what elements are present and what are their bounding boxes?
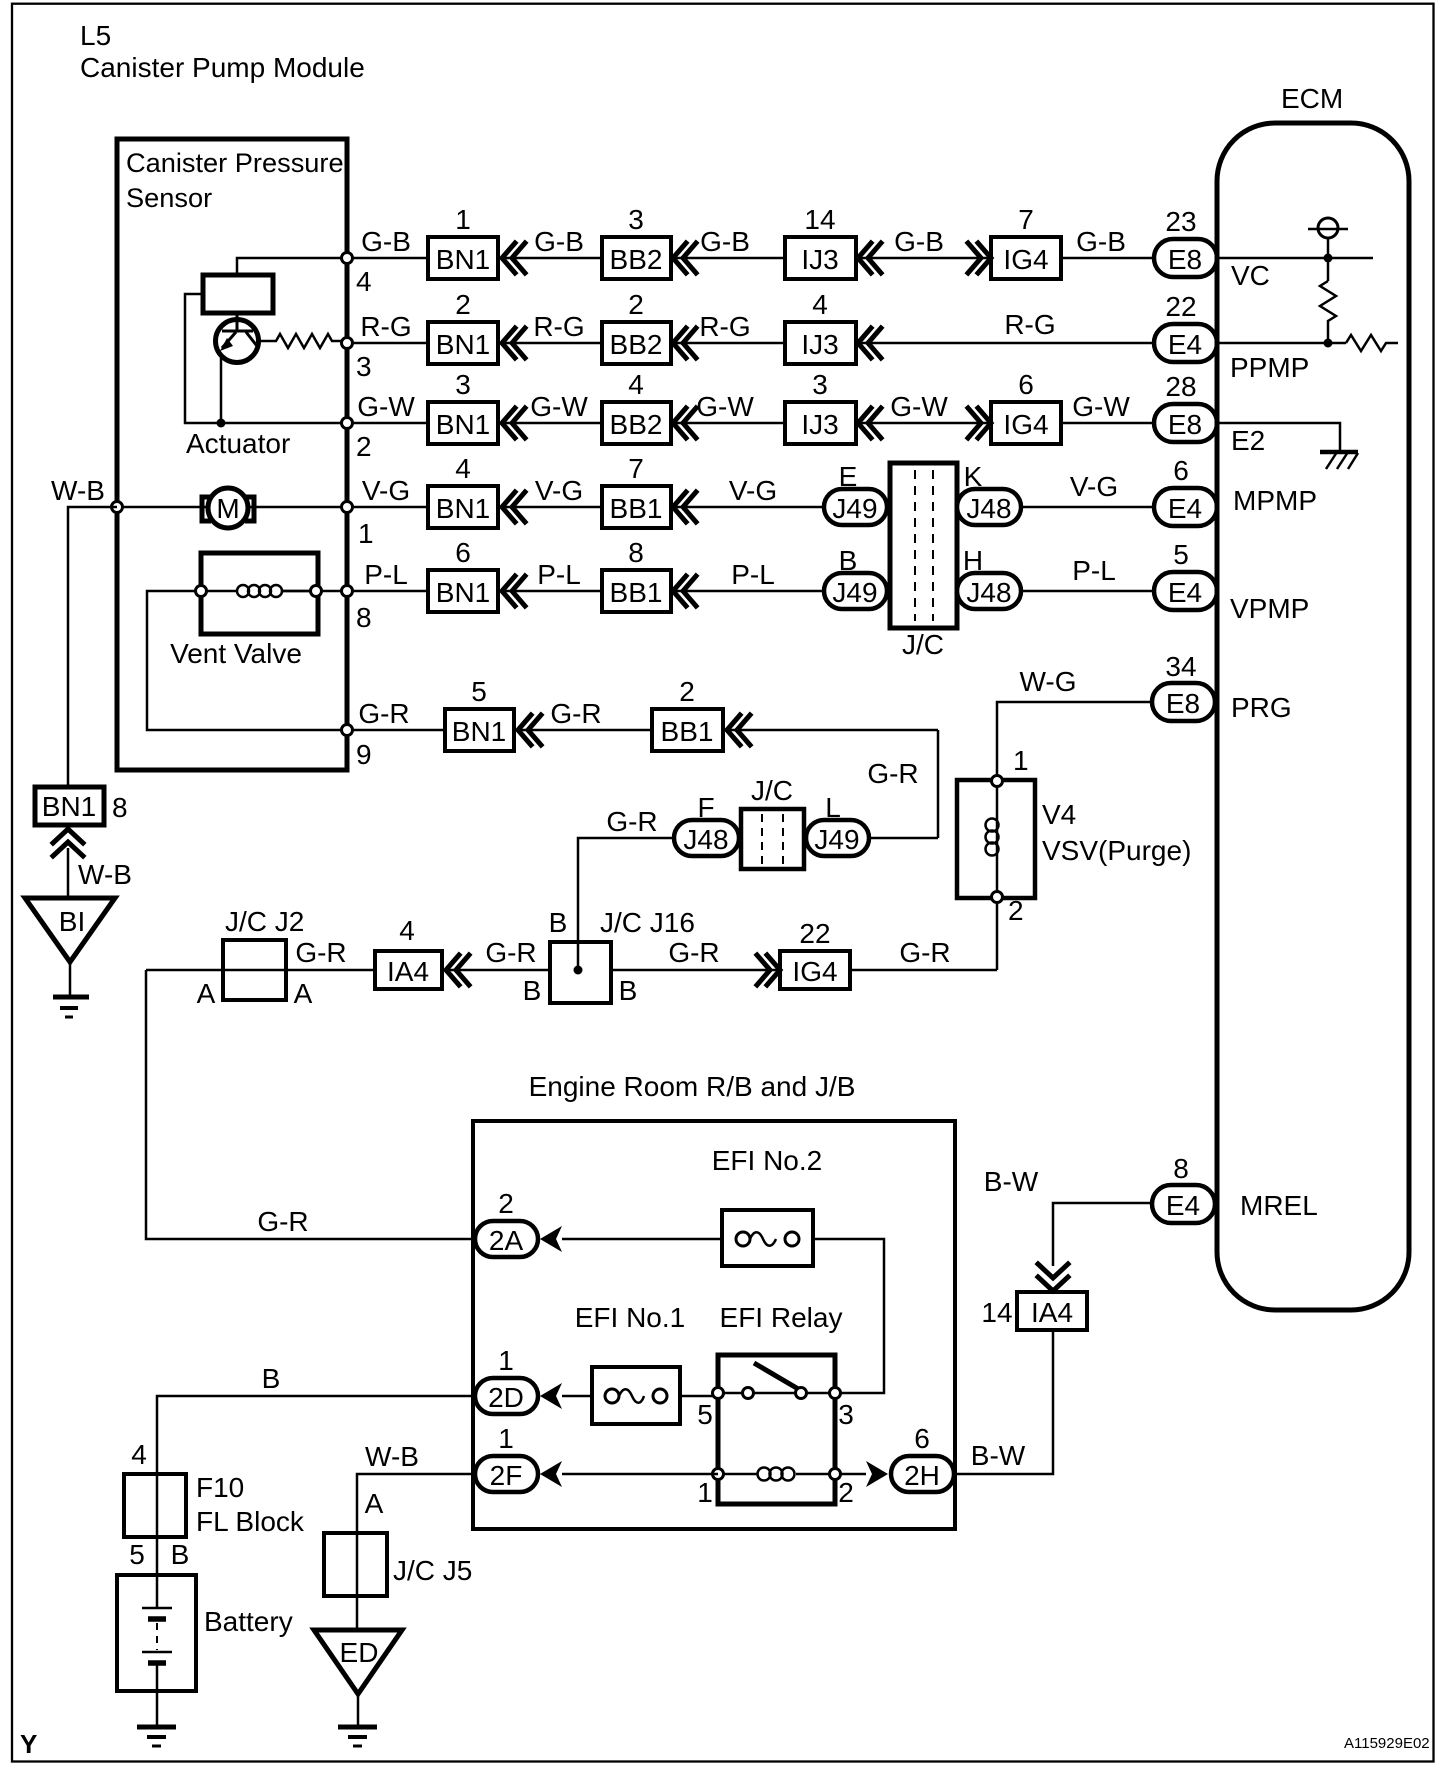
svg-text:G-W: G-W xyxy=(1072,391,1130,422)
relay coil xyxy=(758,1468,795,1481)
wire ED to ground xyxy=(357,1694,360,1727)
svg-text:J48: J48 xyxy=(966,577,1011,608)
svg-text:W-G: W-G xyxy=(1019,666,1076,697)
svg-text:V-G: V-G xyxy=(362,475,410,506)
svg-text:28: 28 xyxy=(1165,371,1196,402)
wire 2D to fuse1 xyxy=(562,1395,592,1398)
ECM body xyxy=(1217,123,1409,1310)
svg-text:B: B xyxy=(839,545,858,576)
vent valve pin circles xyxy=(196,586,207,597)
svg-text:IJ3: IJ3 xyxy=(801,409,838,440)
arrow after 2D xyxy=(540,1383,562,1409)
svg-text:A: A xyxy=(294,978,313,1009)
svg-text:J48: J48 xyxy=(683,824,728,855)
wire transistor emitter down to actuator node xyxy=(220,356,223,423)
node pin 9 junction xyxy=(342,725,353,736)
svg-text:P-L: P-L xyxy=(364,559,408,590)
chevrons after BB2 xyxy=(673,328,696,358)
svg-text:1: 1 xyxy=(1013,745,1029,776)
transistor Q (sensor) circle xyxy=(216,320,259,363)
svg-text:EFI No.1: EFI No.1 xyxy=(575,1302,685,1333)
svg-text:Battery: Battery xyxy=(204,1606,293,1637)
svg-text:Vent Valve: Vent Valve xyxy=(170,638,302,669)
transistor emitter/collector diagonals xyxy=(222,332,257,348)
chevrons after BN1 xyxy=(502,576,525,606)
svg-text:2F: 2F xyxy=(490,1460,523,1491)
svg-text:P-L: P-L xyxy=(1072,555,1116,586)
connector J48 pin H oval xyxy=(957,573,1021,609)
svg-text:ECM: ECM xyxy=(1281,83,1343,114)
chevrons after BB1 xyxy=(727,715,750,745)
svg-text:2H: 2H xyxy=(904,1460,940,1491)
connector J49 pin B oval xyxy=(824,573,887,609)
motor M brackets xyxy=(202,497,254,521)
wire VSV pin2 riser xyxy=(996,897,999,970)
wire PPMP internal xyxy=(1217,342,1346,345)
relay coil terminals xyxy=(713,1469,724,1480)
chevrons after BN1 xyxy=(502,408,525,438)
svg-text:J49: J49 xyxy=(832,493,877,524)
svg-text:1: 1 xyxy=(498,1345,514,1376)
svg-text:A115929E02: A115929E02 xyxy=(1344,1735,1430,1752)
transistor base lead xyxy=(222,313,253,331)
wire chevrons to BI triangle xyxy=(67,848,70,898)
svg-text:PPMP: PPMP xyxy=(1230,352,1309,383)
ground symbol (BI) xyxy=(53,995,89,1000)
chevrons after BN1 xyxy=(502,492,525,522)
node pin 8 junction xyxy=(342,586,353,597)
wire MREL to IA4 xyxy=(1053,1203,1152,1266)
wire row5 P-L xyxy=(347,590,1154,593)
junction block J/C J5 xyxy=(324,1533,387,1596)
svg-text:EFI Relay: EFI Relay xyxy=(720,1302,843,1333)
connector IJ3 row1 xyxy=(785,237,856,279)
node pin 4 junction xyxy=(342,253,353,264)
sensor element rectangle xyxy=(203,275,273,313)
svg-text:R-G: R-G xyxy=(533,311,584,342)
svg-text:6: 6 xyxy=(1173,455,1189,486)
wire 2A to fuse xyxy=(562,1238,722,1241)
chevrons down above IA4 xyxy=(1038,1264,1068,1291)
chevrons up below BN1 xyxy=(53,829,83,856)
svg-text:PRG: PRG xyxy=(1231,692,1292,723)
svg-text:F10: F10 xyxy=(196,1472,244,1503)
svg-text:W-B: W-B xyxy=(365,1441,419,1472)
relay switch blade xyxy=(754,1363,800,1390)
junction block J/C (tall) xyxy=(890,463,957,628)
svg-text:G-W: G-W xyxy=(696,391,754,422)
connector E4 pin 8 oval xyxy=(1152,1185,1215,1223)
svg-text:34: 34 xyxy=(1165,651,1196,682)
svg-text:MPMP: MPMP xyxy=(1233,485,1317,516)
wire power to VC node xyxy=(1327,238,1330,281)
transistor emitter arrowhead xyxy=(220,338,233,351)
relay switch contacts xyxy=(713,1388,724,1399)
wire row4 V-G xyxy=(347,506,1154,509)
chevrons after BB1 xyxy=(673,576,696,606)
chevrons after BN1 xyxy=(518,715,541,745)
wire VSV pin1 to PRG xyxy=(997,702,1152,781)
svg-text:8: 8 xyxy=(356,602,372,633)
svg-text:IG4: IG4 xyxy=(792,956,837,987)
svg-text:L: L xyxy=(825,792,841,823)
resistor (sensor output) xyxy=(258,334,347,348)
svg-text:VSV(Purge): VSV(Purge) xyxy=(1042,835,1191,866)
svg-text:23: 23 xyxy=(1165,206,1196,237)
wire sensor rect top to pin 4 row xyxy=(237,258,347,275)
arrow after 2A xyxy=(540,1226,562,1252)
connector IA4 pin 14 xyxy=(1017,1292,1087,1330)
connector BN1 row5 xyxy=(428,570,498,612)
wire row3 G-W xyxy=(347,422,1154,425)
connector BN1 row3 xyxy=(428,402,498,444)
wire BI to ground xyxy=(69,962,72,997)
chevrons after IJ3 xyxy=(858,243,881,273)
ground symbol (ED) xyxy=(338,1725,377,1730)
svg-text:G-R: G-R xyxy=(257,1206,308,1237)
chevrons after BB2 xyxy=(673,243,696,273)
chevrons after BN1 xyxy=(502,243,525,273)
connector BN1 row6 xyxy=(445,709,514,751)
wire IA4 to 2H xyxy=(952,1330,1053,1474)
vent valve coil wire row xyxy=(195,590,316,593)
node W-B junction on canister edge xyxy=(112,502,123,513)
svg-text:2: 2 xyxy=(628,289,644,320)
svg-text:B: B xyxy=(619,975,638,1006)
svg-text:IA4: IA4 xyxy=(1031,1297,1073,1328)
svg-text:Actuator: Actuator xyxy=(186,428,290,459)
svg-text:4: 4 xyxy=(455,453,471,484)
svg-text:2D: 2D xyxy=(488,1382,524,1413)
svg-text:W-B: W-B xyxy=(78,859,132,890)
svg-text:BN1: BN1 xyxy=(436,577,490,608)
svg-text:G-B: G-B xyxy=(1076,226,1126,257)
svg-text:G-B: G-B xyxy=(534,226,584,257)
svg-text:BN1: BN1 xyxy=(436,409,490,440)
wire vent valve left to pin 9 row xyxy=(147,591,347,730)
junction block J/C J16 xyxy=(550,942,611,1003)
svg-text:2: 2 xyxy=(356,431,372,462)
svg-text:E4: E4 xyxy=(1166,1190,1200,1221)
svg-text:BB2: BB2 xyxy=(610,409,663,440)
engine room box xyxy=(473,1121,955,1529)
svg-text:6: 6 xyxy=(1018,369,1034,400)
svg-text:ED: ED xyxy=(340,1637,379,1668)
resistor PPMP horizontal xyxy=(1346,335,1398,351)
svg-text:9: 9 xyxy=(356,739,372,770)
svg-text:B-W: B-W xyxy=(984,1166,1039,1197)
svg-text:A: A xyxy=(197,978,216,1009)
node pin 1 junction xyxy=(342,502,353,513)
svg-text:J/C J16: J/C J16 xyxy=(600,907,695,938)
svg-text:Canister Pump Module: Canister Pump Module xyxy=(80,52,365,83)
connector 2A oval xyxy=(475,1221,538,1257)
chevrons after IJ3 xyxy=(858,408,881,438)
svg-text:4: 4 xyxy=(399,915,415,946)
svg-text:G-R: G-R xyxy=(550,698,601,729)
svg-text:3: 3 xyxy=(838,1399,854,1430)
svg-text:B: B xyxy=(549,907,568,938)
wire 2F to relay xyxy=(562,1473,718,1476)
svg-text:7: 7 xyxy=(628,453,644,484)
svg-text:BB1: BB1 xyxy=(661,716,714,747)
svg-text:G-W: G-W xyxy=(890,391,948,422)
svg-text:J48: J48 xyxy=(966,493,1011,524)
svg-text:BN1: BN1 xyxy=(436,493,490,524)
wire motor row W-B to pin 1 xyxy=(117,506,347,509)
svg-text:M: M xyxy=(216,493,239,524)
EFI relay box xyxy=(718,1355,835,1504)
svg-text:14: 14 xyxy=(804,204,835,235)
svg-text:8: 8 xyxy=(112,792,128,823)
wire row6 G-R xyxy=(347,730,938,838)
svg-text:2: 2 xyxy=(1008,895,1024,926)
svg-text:1: 1 xyxy=(498,1423,514,1454)
fuse EFI No.1 xyxy=(592,1367,680,1424)
svg-text:22: 22 xyxy=(799,918,830,949)
VSV coil xyxy=(986,819,999,856)
node J16 dot xyxy=(574,966,583,975)
wire sensor rect left side down to pin 2 row xyxy=(185,294,347,423)
svg-text:4: 4 xyxy=(812,289,828,320)
svg-text:B-W: B-W xyxy=(971,1440,1026,1471)
battery cells xyxy=(142,1607,172,1610)
svg-text:5: 5 xyxy=(129,1539,145,1570)
svg-text:8: 8 xyxy=(628,537,644,568)
chevrons before IG4 xyxy=(968,243,991,273)
connector IG4 row1 xyxy=(991,237,1061,279)
svg-text:R-G: R-G xyxy=(360,311,411,342)
svg-text:7: 7 xyxy=(1018,204,1034,235)
wire relay to 2H arrow xyxy=(841,1473,866,1476)
wire 2D to F10 xyxy=(157,1396,475,1608)
svg-text:BB1: BB1 xyxy=(610,577,663,608)
svg-text:6: 6 xyxy=(455,537,471,568)
fusible link F10 box xyxy=(124,1474,186,1537)
svg-text:Sensor: Sensor xyxy=(126,182,212,213)
svg-text:VPMP: VPMP xyxy=(1230,593,1309,624)
connector BB1 row6 xyxy=(652,709,723,751)
connector E4 pin 6 oval xyxy=(1154,488,1217,526)
svg-text:J/C J2: J/C J2 xyxy=(225,906,304,937)
wire G-R row through J2 to IA4 xyxy=(146,969,997,972)
svg-text:5: 5 xyxy=(697,1399,713,1430)
svg-text:B: B xyxy=(171,1539,190,1570)
connector BB2 row3 xyxy=(602,402,671,444)
svg-text:5: 5 xyxy=(1173,539,1189,570)
wire VSV internal xyxy=(996,781,999,897)
svg-text:IG4: IG4 xyxy=(1003,409,1048,440)
connector BB1 row4 xyxy=(602,486,671,528)
chevrons after IA4 xyxy=(446,955,469,985)
svg-text:K: K xyxy=(964,461,983,492)
svg-text:P-L: P-L xyxy=(537,559,581,590)
svg-text:3: 3 xyxy=(455,369,471,400)
junction block J/C (small) xyxy=(741,809,804,869)
wire E2 internal to ground xyxy=(1217,423,1340,452)
connector E8 pin 34 oval xyxy=(1152,683,1215,721)
node pin 3 junction xyxy=(342,338,353,349)
svg-text:L5: L5 xyxy=(80,20,111,51)
svg-text:G-R: G-R xyxy=(358,698,409,729)
svg-text:G-W: G-W xyxy=(357,391,415,422)
svg-text:8: 8 xyxy=(1173,1153,1189,1184)
connector BN1 pin 8 box xyxy=(35,787,104,825)
svg-text:VC: VC xyxy=(1231,260,1270,291)
chevrons after IJ3 xyxy=(858,328,881,358)
svg-text:G-W: G-W xyxy=(530,391,588,422)
svg-text:G-R: G-R xyxy=(295,937,346,968)
junction block J/C J2 xyxy=(223,940,286,1000)
svg-text:R-G: R-G xyxy=(1004,309,1055,340)
node pin 2 junction xyxy=(342,418,353,429)
svg-text:5: 5 xyxy=(471,676,487,707)
VSV pin circles xyxy=(992,776,1003,787)
svg-text:A: A xyxy=(365,1488,384,1519)
svg-text:G-R: G-R xyxy=(668,937,719,968)
svg-text:BN1: BN1 xyxy=(436,329,490,360)
svg-text:E8: E8 xyxy=(1166,688,1200,719)
svg-text:1: 1 xyxy=(358,518,374,549)
svg-text:E: E xyxy=(839,461,858,492)
connector IG4 row3 xyxy=(991,402,1061,444)
svg-text:E8: E8 xyxy=(1168,409,1202,440)
svg-text:4: 4 xyxy=(628,369,644,400)
connector E4 pin 22 oval xyxy=(1154,324,1217,362)
connector 2H oval xyxy=(891,1456,954,1492)
svg-text:E2: E2 xyxy=(1231,425,1265,456)
svg-text:4: 4 xyxy=(356,266,372,297)
svg-text:H: H xyxy=(963,545,983,576)
svg-text:G-B: G-B xyxy=(894,226,944,257)
svg-text:P-L: P-L xyxy=(731,559,775,590)
wire fuse to relay pin 3 xyxy=(813,1239,884,1393)
svg-text:3: 3 xyxy=(628,204,644,235)
connector IG4 pin 22 xyxy=(780,951,850,989)
connector J48 pin F oval xyxy=(674,820,739,856)
svg-text:G-B: G-B xyxy=(700,226,750,257)
svg-text:J/C: J/C xyxy=(902,629,944,660)
svg-text:G-R: G-R xyxy=(867,758,918,789)
svg-text:V4: V4 xyxy=(1042,799,1076,830)
svg-text:FL Block: FL Block xyxy=(196,1506,305,1537)
svg-text:EFI No.2: EFI No.2 xyxy=(712,1145,822,1176)
svg-text:E4: E4 xyxy=(1168,329,1202,360)
chevrons after BB1 xyxy=(673,492,696,522)
node PPMP dot xyxy=(1324,339,1333,348)
wire fuse1 to relay xyxy=(680,1395,718,1398)
relay switch wire xyxy=(718,1392,841,1395)
chassis ground symbol xyxy=(1320,450,1358,455)
svg-text:22: 22 xyxy=(1165,291,1196,322)
connector J49 pin L oval xyxy=(806,820,869,856)
battery box xyxy=(117,1575,196,1691)
power supply symbol xyxy=(1318,218,1338,238)
ground triangle BI xyxy=(25,898,115,962)
chevrons before IG4 xyxy=(757,955,780,985)
svg-text:J49: J49 xyxy=(832,577,877,608)
svg-text:IJ3: IJ3 xyxy=(801,244,838,275)
svg-text:V-G: V-G xyxy=(1070,471,1118,502)
svg-text:6: 6 xyxy=(914,1423,930,1454)
vent valve box xyxy=(201,553,318,634)
wire row2 R-G xyxy=(347,342,1154,345)
arrow before 2H xyxy=(866,1461,888,1487)
svg-text:BB2: BB2 xyxy=(610,329,663,360)
svg-text:IJ3: IJ3 xyxy=(801,329,838,360)
motor M circle xyxy=(208,488,248,528)
svg-text:V-G: V-G xyxy=(729,475,777,506)
svg-text:E4: E4 xyxy=(1168,577,1202,608)
connector BB2 row1 xyxy=(602,237,671,279)
svg-text:BN1: BN1 xyxy=(452,716,506,747)
svg-text:2: 2 xyxy=(498,1188,514,1219)
ground triangle ED xyxy=(314,1630,402,1694)
svg-text:BN1: BN1 xyxy=(42,791,96,822)
connector IJ3 row3 xyxy=(785,402,856,444)
svg-text:J/C: J/C xyxy=(751,775,793,806)
wire coil to pin 8 xyxy=(282,590,347,593)
svg-text:MREL: MREL xyxy=(1240,1190,1318,1221)
svg-text:2: 2 xyxy=(455,289,471,320)
wire G-R to 2A xyxy=(146,970,475,1239)
svg-text:J49: J49 xyxy=(814,824,859,855)
chevrons after BB2 xyxy=(673,408,696,438)
svg-text:IA4: IA4 xyxy=(387,956,429,987)
svg-text:1: 1 xyxy=(455,204,471,235)
svg-text:G-R: G-R xyxy=(899,937,950,968)
svg-text:IG4: IG4 xyxy=(1003,244,1048,275)
svg-text:BB2: BB2 xyxy=(610,244,663,275)
connector E4 pin 5 oval xyxy=(1154,572,1217,610)
svg-text:Y: Y xyxy=(20,1729,37,1759)
svg-text:BB1: BB1 xyxy=(610,493,663,524)
wire 2F to J5 xyxy=(357,1474,475,1533)
svg-text:G-B: G-B xyxy=(361,226,411,257)
svg-text:2: 2 xyxy=(838,1477,854,1508)
svg-text:R-G: R-G xyxy=(699,311,750,342)
svg-text:J/C J5: J/C J5 xyxy=(393,1555,472,1586)
resistor pull-up vertical xyxy=(1320,281,1336,343)
connector 2D oval xyxy=(475,1378,538,1414)
node VC dot xyxy=(1324,254,1333,263)
connector BB2 row2 xyxy=(602,322,671,364)
connector BN1 row4 xyxy=(428,486,498,528)
connector BN1 row1 xyxy=(428,237,498,279)
connector 2F oval xyxy=(475,1456,538,1492)
svg-text:F: F xyxy=(697,792,714,823)
node actuator junction dot xyxy=(217,419,226,428)
wire W-B to BN1 8 xyxy=(68,507,117,787)
svg-text:Engine Room R/B and J/B: Engine Room R/B and J/B xyxy=(529,1071,856,1102)
svg-text:Canister Pressure: Canister Pressure xyxy=(126,147,344,178)
relay coil wire xyxy=(718,1473,835,1476)
canister pressure sensor box xyxy=(117,139,347,770)
svg-text:E4: E4 xyxy=(1168,493,1202,524)
VSV box xyxy=(957,780,1035,898)
svg-text:4: 4 xyxy=(131,1439,147,1470)
wire J16 riser to J48 F xyxy=(578,838,674,970)
wire row1 G-B xyxy=(347,257,1154,260)
connector E8 pin 23 oval xyxy=(1154,239,1217,277)
svg-text:BI: BI xyxy=(59,906,85,937)
svg-text:G-R: G-R xyxy=(606,806,657,837)
connector IA4 pin 4 xyxy=(375,951,442,989)
svg-text:V-G: V-G xyxy=(535,475,583,506)
svg-text:3: 3 xyxy=(356,351,372,382)
wire VC internal xyxy=(1217,257,1373,260)
svg-text:B: B xyxy=(523,975,542,1006)
